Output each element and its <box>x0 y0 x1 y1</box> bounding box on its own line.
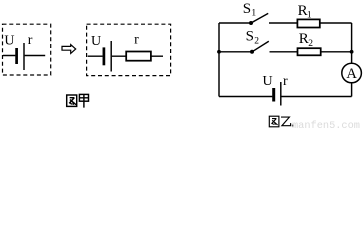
svg-text:U: U <box>263 74 273 89</box>
svg-text:1: 1 <box>307 10 312 20</box>
svg-text:r: r <box>283 74 288 89</box>
svg-text:U: U <box>91 34 101 49</box>
svg-text:r: r <box>134 33 139 48</box>
svg-text:1: 1 <box>251 8 256 18</box>
svg-text:r: r <box>28 33 33 48</box>
svg-text:S: S <box>246 29 254 45</box>
svg-text:2: 2 <box>308 39 313 49</box>
svg-text:S: S <box>243 1 251 17</box>
svg-text:manfen5.com: manfen5.com <box>292 120 360 131</box>
svg-text:U: U <box>4 34 14 49</box>
svg-text:2: 2 <box>254 36 259 46</box>
svg-text:A: A <box>346 66 357 82</box>
